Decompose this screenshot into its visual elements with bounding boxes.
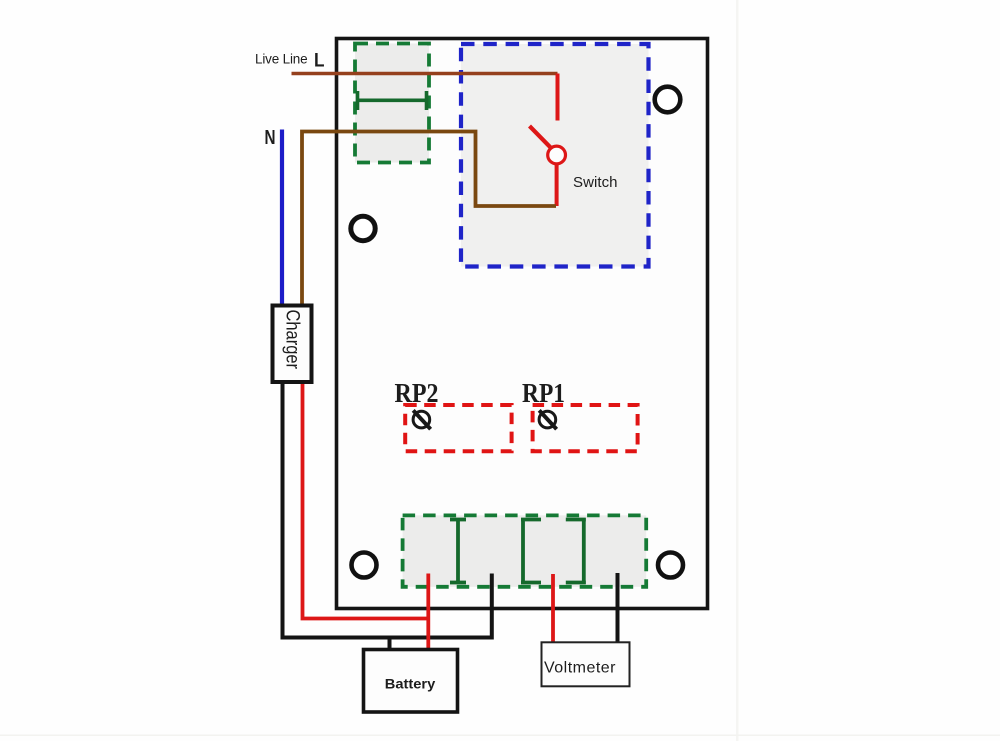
switch S1 blade (diagonal) bbox=[530, 126, 554, 150]
switch S1 pivot circle bbox=[548, 146, 566, 164]
wire: battery negative stub (black) bbox=[388, 638, 392, 650]
potentiometer RP1 (red dashed box) bbox=[533, 405, 638, 451]
terminal block TB2 (green dashed, bottom) bbox=[403, 515, 647, 586]
mounting hole (bottom right) bbox=[658, 553, 683, 578]
svg-text:N: N bbox=[265, 127, 276, 149]
charger CH1 box bbox=[273, 306, 312, 383]
svg-text:Charger: Charger bbox=[282, 310, 303, 370]
jumper link inside TB1 bbox=[356, 91, 428, 110]
svg-text:RP1: RP1 bbox=[522, 378, 565, 408]
mounting hole (mid left) bbox=[351, 216, 375, 240]
wire: charger negative output (black) bbox=[283, 382, 492, 638]
svg-text:L: L bbox=[314, 50, 325, 71]
wire: voltmeter positive (red) bbox=[551, 574, 555, 643]
TB2 divider 3 bbox=[566, 518, 586, 584]
voltmeter M1 box bbox=[542, 642, 630, 686]
svg-text:Live Line: Live Line bbox=[255, 52, 308, 67]
mounting hole (top right) bbox=[655, 87, 681, 113]
battery B1 box bbox=[364, 650, 458, 713]
TB2 divider 1 bbox=[450, 518, 466, 584]
RP1 screw bbox=[539, 410, 556, 429]
wire: neutral lead-in (blue) bbox=[280, 130, 284, 306]
TB2 divider 2 bbox=[521, 518, 541, 584]
wire: neutral run (brown) charger-to-switch bbox=[302, 132, 556, 306]
wire: live line (brown) bbox=[292, 72, 558, 75]
wire: red switch return bbox=[555, 164, 559, 206]
svg-text:Voltmeter: Voltmeter bbox=[544, 659, 616, 676]
switch enclosure (blue dashed) bbox=[461, 44, 649, 267]
svg-text:Battery: Battery bbox=[385, 676, 436, 692]
terminal block TB1 (green dashed, top) bbox=[355, 44, 429, 163]
wire: charger positive output (red) bbox=[303, 382, 429, 619]
potentiometer RP2 (red dashed box) bbox=[405, 405, 511, 451]
RP2 screw bbox=[413, 410, 431, 429]
wire: red switch feed bbox=[556, 74, 560, 121]
PCB board outline bbox=[337, 39, 708, 609]
mounting hole (bottom left) bbox=[352, 553, 377, 578]
wire: battery positive feed (red) bbox=[426, 574, 430, 650]
svg-text:RP2: RP2 bbox=[395, 378, 439, 408]
svg-text:Switch: Switch bbox=[573, 174, 618, 191]
wire: voltmeter negative (black) bbox=[616, 573, 620, 643]
